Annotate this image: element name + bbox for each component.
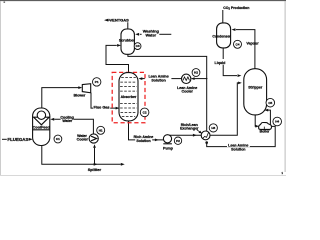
component Lean Amine Cooler [182, 74, 191, 83]
stream tag C5 [266, 98, 275, 107]
Absorber trays [120, 78, 137, 117]
wire FLUEGAS inlet stub [2, 138, 7, 140]
arrowhead FLUEGAS into CoolFeed [29, 138, 33, 141]
page top border [0, 0, 286, 2]
arrowhead on rich line into Exchanger [193, 134, 197, 137]
stream tag H4 [273, 117, 282, 126]
arrowhead lean amine into Lean Amine Cooler [191, 77, 195, 80]
stream tag C1 [54, 135, 62, 143]
svg-text:C3: C3 [136, 44, 140, 48]
vessel Absorber [119, 73, 138, 121]
arrowhead liquid into Stripper [238, 74, 242, 77]
svg-text:CoolFeed: CoolFeed [33, 125, 51, 129]
wire Scrubber bottoms across to main riser [128, 54, 207, 131]
vessel Condenser [217, 23, 231, 48]
wire Stripper bottoms to Boiler [254, 115, 256, 126]
svg-text:Boiler: Boiler [260, 130, 271, 134]
page bottom border [0, 175, 286, 177]
arrowhead splitter branch up into Water Cooler [93, 144, 96, 148]
wire Condenser liquid return to Stripper [223, 48, 237, 76]
stream tag H1 [97, 126, 105, 134]
wire Absorber bottoms rich amine to Pump [129, 121, 164, 140]
wire Splitter branch up to Water Cooler [94, 148, 96, 165]
component Pump [163, 135, 171, 143]
svg-text:Solution: Solution [136, 139, 150, 143]
wire Scrubber overhead VENTGAS [127, 22, 129, 29]
CoolFeed internal chord line [33, 129, 50, 131]
wire CO2 product line above Condenser [222, 10, 224, 23]
svg-text:Vapour: Vapour [246, 42, 259, 46]
svg-text:H4: H4 [275, 120, 279, 124]
arrowhead feed into Stripper [238, 82, 242, 85]
vessel CoolFeed [33, 108, 50, 146]
svg-text:Condenser: Condenser [212, 34, 231, 38]
wire Pump discharge to Rich/Lean Exchanger [168, 134, 201, 136]
svg-text:Splitter: Splitter [88, 167, 102, 172]
svg-text:Solution: Solution [231, 148, 245, 152]
wire Boiler lean amine return to Exchanger [207, 126, 276, 146]
svg-text:Blower: Blower [74, 93, 86, 97]
component Rich/Lean Exchanger [201, 131, 210, 140]
arrowhead boiler vapour into Stripper [264, 109, 268, 112]
svg-text:P1: P1 [95, 80, 99, 84]
label leader arrow Exchanger [197, 130, 201, 133]
stream tag H3 [209, 124, 217, 132]
svg-text:H3: H3 [211, 126, 215, 130]
svg-text:CO2 Production: CO2 Production [223, 6, 249, 11]
svg-text:Pump: Pump [163, 147, 174, 151]
wire Washing Water feed stub [159, 33, 171, 35]
white gaps for text on lines [61, 59, 250, 147]
arrowhead gas into Scrubber [117, 44, 121, 47]
arrowhead vapour into Condenser [232, 28, 236, 31]
arrowhead VENTGAS pointing left [104, 19, 108, 22]
vessel Scrubber [121, 29, 134, 54]
svg-text:Stripper: Stripper [248, 86, 263, 90]
arrowhead into Blower [78, 86, 82, 89]
arrowhead cooling water into CoolFeed [50, 118, 54, 121]
svg-text:Absorber: Absorber [121, 95, 137, 99]
stream tag C2 [140, 108, 149, 117]
CoolFeed spray circle [37, 111, 45, 119]
svg-text:Water: Water [145, 32, 156, 37]
wire Boiler vapour return to Stripper [268, 110, 270, 124]
svg-text:C1: C1 [56, 137, 60, 141]
svg-text:C2: C2 [143, 111, 147, 115]
svg-text:Scrubber: Scrubber [119, 38, 135, 42]
junction splitter arrow [94, 163, 98, 166]
wire lean amine branch through Lean Amine Cooler to Absorber [194, 78, 207, 80]
svg-text:Exchanger: Exchanger [180, 127, 199, 131]
svg-text:Water: Water [62, 119, 72, 123]
svg-text:P2: P2 [176, 139, 180, 143]
arrowhead Flue Gas into Absorber [116, 107, 120, 110]
svg-text:VENTGAS: VENTGAS [110, 18, 130, 23]
page right border [284, 1, 286, 172]
page left border [0, 1, 1, 176]
component Water Cooler [89, 134, 98, 143]
arrowhead splitter line end [121, 163, 125, 166]
svg-text:Flue Gas: Flue Gas [93, 105, 109, 109]
svg-text:C5: C5 [268, 101, 272, 105]
arrowhead lean amine into Absorber [138, 77, 142, 80]
junction dot lean return below Exchanger [205, 141, 208, 144]
svg-text:Liquid: Liquid [215, 61, 226, 65]
stream tag C4 [234, 40, 242, 48]
component Boiler [259, 122, 272, 129]
wire FLUEGAS arrow segment into CoolFeed [29, 138, 31, 140]
wire CoolFeed bottoms to Splitter run [42, 146, 121, 165]
svg-text:FLUEGAS: FLUEGAS [7, 137, 28, 142]
red dashed CO2 capture boundary box [112, 72, 145, 122]
wire Absorber overhead to Scrubber inlet [106, 45, 129, 72]
svg-text:Cooler: Cooler [77, 138, 89, 142]
svg-text:H2: H2 [194, 71, 198, 75]
wire Exchanger to Stripper feed riser [210, 83, 239, 135]
wire Blower outlet / Flue Gas line to Absorber [91, 93, 116, 109]
junction lean amine tee [206, 78, 207, 79]
arrowhead into Boiler [255, 125, 259, 128]
stream tag P1 [93, 78, 101, 86]
svg-text:Solution: Solution [151, 78, 165, 82]
wire CoolFeed top to Blower inlet [42, 88, 79, 108]
stream tag H2 [192, 69, 200, 77]
component Blower [82, 84, 90, 93]
arrowhead rich amine into Pump [155, 139, 159, 142]
vessel Stripper [244, 69, 267, 115]
arrowhead washing water into Scrubber [135, 33, 139, 36]
stream tag C3 [134, 43, 141, 50]
svg-text:C4: C4 [236, 42, 240, 46]
stream tag P2 [174, 137, 181, 144]
wire Cooling Water from Water Cooler to CoolFeed [54, 119, 93, 134]
CoolFeed spray triangle [34, 117, 50, 125]
wire Stripper overhead vapour to Condenser [236, 30, 255, 69]
svg-text:Cooler: Cooler [182, 90, 194, 94]
svg-text:H1: H1 [99, 128, 103, 132]
